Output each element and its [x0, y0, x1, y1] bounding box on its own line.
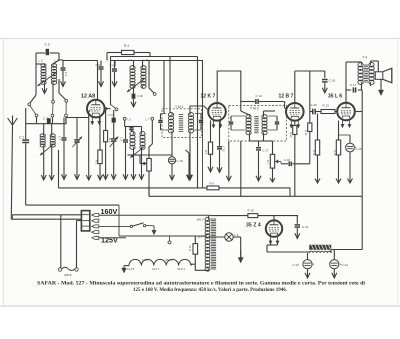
ground arrow under L2	[44, 86, 46, 93]
antenna AE	[8, 118, 13, 125]
wire drop to C20	[309, 71, 311, 123]
pilot lamp LS	[225, 233, 233, 241]
resistor R2	[99, 117, 101, 150]
osc switch terms	[115, 108, 118, 111]
ground arrow C19	[324, 86, 326, 93]
resistor R11 AF load	[308, 123, 312, 132]
capacitor C1	[25, 108, 27, 139]
wire plug5	[99, 237, 126, 239]
svg-text:L 7: L 7	[145, 118, 149, 122]
wire mains right up	[76, 221, 78, 268]
capacitor C19	[324, 71, 326, 78]
svg-text:C 17: C 17	[263, 149, 269, 153]
wire antenna to selector	[11, 218, 81, 220]
TM2 core	[254, 116, 258, 118]
wire AVC drop	[88, 118, 90, 180]
autotransformer T5	[208, 218, 210, 220]
trimmer arrow SW ant	[40, 144, 54, 155]
svg-text:C 5: C 5	[96, 63, 101, 67]
coil L1b	[51, 124, 53, 135]
TM2 primary coil	[249, 115, 251, 117]
wire osc sw block	[111, 105, 116, 109]
svg-text:125 e 160 V. Media frequenza:: 125 e 160 V. Media frequenza: 450 kc/s. …	[133, 288, 288, 293]
wire grid 12A8 from coils	[66, 117, 89, 119]
capacitor C4	[59, 59, 63, 61]
svg-text:C 9: C 9	[120, 137, 124, 142]
capacitor C6	[112, 68, 117, 70]
TM2 bottoms	[249, 134, 251, 141]
wire 125V tap	[119, 235, 207, 237]
capacitor C10b	[125, 127, 127, 140]
speaker	[375, 72, 383, 80]
svg-text:C 4: C 4	[64, 72, 68, 77]
TM1 cap primary	[160, 114, 162, 120]
svg-text:+: +	[313, 262, 315, 266]
capacitor C17 IF bypass	[258, 141, 260, 147]
scan border right	[397, 39, 399, 307]
svg-text:T M 1: T M 1	[175, 105, 184, 109]
trimmer arrow antenna coil	[38, 72, 58, 86]
svg-text:C 17: C 17	[350, 83, 357, 87]
wire bus 188 right	[219, 187, 290, 189]
wire bus 188 jog at 149	[148, 188, 150, 196]
svg-text:L 5: L 5	[235, 233, 239, 237]
wire pot wiper to C18	[275, 161, 281, 163]
switch interruttore	[99, 225, 131, 227]
wire 12A8 to osc	[105, 108, 111, 110]
resistor R15	[193, 244, 198, 255]
capacitor C12	[219, 120, 221, 146]
svg-text:C 12: C 12	[222, 146, 226, 152]
svg-text:L 6: L 6	[128, 118, 132, 122]
ground arrow L6	[133, 149, 135, 179]
heater chain	[123, 266, 125, 269]
voltage selector block	[81, 211, 89, 231]
svg-text:C 16: C 16	[177, 159, 184, 163]
svg-text:C 23: C 23	[293, 263, 300, 267]
svg-text:R 2: R 2	[95, 160, 99, 165]
capacitor SW osc top	[129, 127, 133, 129]
wire C16 feed	[140, 154, 172, 156]
terminal tap circle	[169, 236, 171, 241]
capacitor C7	[63, 118, 65, 138]
resistor R5 cathode	[210, 120, 212, 142]
scan border left	[2, 39, 4, 307]
svg-text:125 V: 125 V	[198, 234, 205, 238]
wire selector jog down	[118, 205, 120, 236]
trimmer arrow SW osc	[130, 147, 144, 158]
resistor R10 12B7 cathode	[294, 121, 296, 125]
svg-text:R 4: R 4	[124, 44, 129, 48]
svg-text:35 L 6: 35 L 6	[166, 258, 174, 262]
svg-text:C 10: C 10	[137, 94, 143, 98]
svg-text:C 2: C 2	[45, 43, 50, 47]
power ground lamp	[240, 237, 242, 257]
wire TM1 top leads	[169, 57, 171, 114]
switch lever ant	[30, 106, 36, 115]
svg-text:R 7: R 7	[266, 160, 270, 165]
wire 12K7 plate loop	[217, 71, 241, 102]
resistor R14 cathode 35L6	[338, 121, 340, 141]
wire B+ top run	[150, 53, 198, 57]
wire L1b down	[51, 147, 53, 180]
grid return 12K7	[202, 125, 204, 188]
svg-text:C 21: C 21	[302, 225, 309, 229]
wire switch right down	[65, 118, 67, 124]
wire L3 bottom to switch	[52, 84, 54, 101]
capacitor C5	[100, 61, 102, 67]
selector plug contacts	[92, 214, 99, 217]
wire TM1 sec bottom down	[189, 138, 191, 180]
svg-text:R 14: R 14	[333, 150, 337, 156]
wire 12B7 plate up	[294, 71, 296, 103]
wire C1 to selector jog	[26, 204, 119, 206]
wire TM2 sec top	[263, 111, 265, 115]
TM2 secondary coil	[263, 115, 265, 117]
svg-text:R 13: R 13	[323, 104, 330, 108]
capacitor C10	[133, 88, 135, 94]
svg-text:SAFAR - Mod. 527 - Minuscola s: SAFAR - Mod. 527 - Minuscola supereterod…	[37, 282, 366, 287]
TM2 secondary cap	[276, 116, 278, 121]
capacitor C18	[281, 163, 288, 165]
TM1 core	[179, 114, 183, 116]
wire 35L6 plate up	[345, 62, 347, 102]
svg-text:C 20: C 20	[311, 103, 318, 107]
variable capacitor C8	[76, 118, 78, 140]
ground arrow speaker	[377, 64, 379, 72]
TM1 primary coil	[171, 113, 173, 115]
svg-text:125V: 125V	[101, 236, 118, 245]
wire L7 down	[141, 149, 143, 179]
wire TM1 bottoms	[171, 133, 173, 138]
svg-text:R 11: R 11	[304, 130, 308, 136]
wire choke to B+	[331, 249, 362, 251]
ground arrow under C4	[62, 79, 64, 86]
volume pot R7	[272, 141, 274, 154]
mains plug	[58, 268, 61, 271]
scan border top	[0, 38, 400, 40]
ground arrow L1a	[43, 147, 45, 180]
TM2 primary cap	[230, 116, 232, 121]
electrolytic C24	[333, 250, 335, 260]
wire 35L6 screen to B+	[355, 111, 362, 113]
svg-text:C 7: C 7	[58, 136, 62, 141]
wire TM2 pri top	[240, 102, 242, 112]
svg-text:C 22: C 22	[356, 147, 362, 151]
chassis bus upper	[59, 187, 208, 189]
wire osc top	[110, 57, 112, 105]
wire 240 drop	[240, 141, 242, 196]
electrolytic C23	[307, 253, 309, 260]
ground arrow under C10	[133, 99, 135, 107]
capacitor C16 trimmer	[171, 138, 173, 157]
svg-text:R 16: R 16	[248, 209, 255, 213]
capacitor C21	[296, 216, 298, 224]
variable capacitor C9	[113, 123, 115, 138]
svg-text:R 12: R 12	[312, 150, 316, 156]
svg-text:C 18: C 18	[284, 158, 290, 162]
wire R4 left vertical	[106, 53, 108, 61]
coil L7 SW osc	[141, 132, 143, 134]
wire mains left up	[60, 215, 62, 268]
coil L1a	[43, 124, 45, 135]
svg-text:160 V: 160 V	[197, 218, 204, 222]
TM1 secondary coil	[189, 113, 191, 115]
svg-text:R 15: R 15	[188, 245, 192, 251]
wire SW ant top	[35, 114, 38, 117]
wire C16 feed left	[128, 154, 141, 156]
svg-text:T M 2: T M 2	[250, 107, 259, 111]
svg-text:C 14: C 14	[256, 94, 263, 98]
svg-text:12 B 7: 12 B 7	[279, 94, 294, 100]
svg-text:12 K 7: 12 K 7	[152, 267, 160, 271]
coil L6 SW osc	[133, 132, 135, 134]
wire main 196 bus	[149, 195, 362, 197]
svg-text:C 8: C 8	[109, 113, 114, 117]
resistor R1	[104, 107, 107, 110]
svg-text:RETE: RETE	[65, 273, 72, 277]
switch contact antenna right	[58, 79, 60, 93]
wire B+ return down	[361, 90, 363, 196]
svg-text:R 5: R 5	[204, 150, 208, 155]
svg-text:160V: 160V	[101, 207, 118, 216]
svg-text:R 9: R 9	[210, 181, 215, 185]
filter choke	[310, 245, 332, 250]
svg-text:R 10: R 10	[289, 132, 293, 138]
wire T4 B+ down	[361, 84, 363, 90]
wire AVC run	[115, 61, 203, 126]
svg-text:35 Z 4: 35 Z 4	[246, 223, 261, 229]
svg-text:C 6: C 6	[110, 64, 115, 68]
svg-text:12 B 7: 12 B 7	[142, 258, 150, 262]
svg-text:C 1: C 1	[19, 136, 24, 140]
svg-text:35 Z 4: 35 Z 4	[178, 267, 186, 271]
wire TM1 sec to 12K7 grid top	[190, 106, 208, 113]
TM1 cap secondary	[200, 114, 202, 120]
svg-text:12 A 8: 12 A 8	[127, 267, 135, 271]
wire B+ right down	[361, 196, 363, 249]
wire TM2 drop	[228, 141, 230, 176]
svg-text:T 4: T 4	[363, 56, 368, 60]
wire TM1 cap feed	[163, 61, 165, 114]
arrow switch to 125V wire	[151, 225, 155, 227]
resistor R12 grid leak	[317, 114, 319, 141]
svg-text:12 K 7: 12 K 7	[201, 94, 216, 100]
wire 160V to transformer top	[99, 214, 210, 216]
wire TM1 sec down	[186, 150, 190, 153]
switch contact antenna MW	[35, 64, 37, 95]
potentiometer R8	[147, 159, 152, 172]
wire antenna lead down	[11, 125, 12, 219]
wire plate feed R16	[210, 215, 248, 217]
svg-text:C 19: C 19	[329, 79, 336, 83]
trimmer arrow osc	[127, 79, 144, 92]
svg-text:12 A8: 12 A8	[81, 94, 95, 100]
svg-text:35 L 6: 35 L 6	[328, 94, 342, 100]
svg-text:C 24: C 24	[342, 263, 349, 267]
wire cathode to choke	[270, 243, 272, 245]
electrolytic C22	[349, 135, 351, 143]
svg-text:L 2: L 2	[39, 59, 43, 63]
wire C14 to 12B7 grid	[284, 102, 286, 109]
wire 12A8 grid cap	[63, 60, 98, 62]
wire antenna branch	[12, 214, 60, 216]
scan border bottom	[0, 305, 400, 307]
wire plate run to C19	[295, 70, 325, 72]
